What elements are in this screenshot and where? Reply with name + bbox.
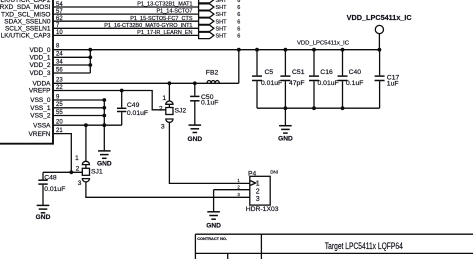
svg-text:SHT: SHT [216,0,228,4]
svg-text:1: 1 [256,181,260,188]
pin VSS_1 25 [30,102,104,112]
wire SJ1 pin3 to P4 pin3 [86,182,250,197]
svg-text:CONTRACT NO.: CONTRACT NO. [197,236,227,241]
capacitor C48 0.01uF [38,172,65,205]
pin SCLK/UTICK_CAP3 10 / net P1_17-IR_LEARN_EN [1,30,199,40]
wire SJ2 pin3 to P4 pin1 [169,122,249,183]
pin VREFP 22 / wire to SJ2 pin2 [29,85,166,110]
off-page flag SHT 6 (row 62) [199,18,241,25]
svg-text:0.01uF: 0.01uF [44,186,65,193]
svg-text:SHT: SHT [216,5,228,11]
svg-text:57: 57 [56,9,63,15]
svg-text:GND: GND [97,161,112,168]
wire C48/SJ1 pin2 [43,170,83,174]
svg-text:C16: C16 [320,69,333,76]
solder jumper SJ2 [159,81,187,130]
svg-text:FB2: FB2 [206,70,219,77]
wire VDD bus vertical [88,48,92,73]
ground (C50) [187,125,202,143]
svg-text:3: 3 [161,123,165,130]
svg-text:10: 10 [56,30,63,36]
svg-text:C40: C40 [349,69,362,76]
svg-text:0.1uF: 0.1uF [346,80,363,87]
pin VDD_1 24 [30,52,91,62]
svg-text:0.1uF: 0.1uF [201,99,218,106]
svg-text:GND: GND [278,135,293,142]
pin VREFN 21 / wire to SJ1 pin2 [28,128,71,172]
pin VDDA 23 / wire VDDA rail [32,78,238,88]
svg-text:DNI: DNI [270,170,278,175]
svg-text:54: 54 [56,2,63,8]
svg-text:3: 3 [78,180,82,187]
svg-text:VSS_1: VSS_1 [30,105,51,112]
off-page flag SHT 6 (row 54) [199,4,241,11]
svg-text:C5: C5 [265,69,274,76]
capacitor C5 0.01uF [252,48,282,108]
svg-text:2: 2 [159,105,163,112]
pin TXD_SCL_MISO 57 / net P1_14-SCTO7 [1,9,199,19]
svg-text:SJ1: SJ1 [91,168,103,175]
svg-text:2: 2 [76,166,80,173]
svg-text:6: 6 [237,5,240,11]
solder jumper SJ1 [75,125,103,187]
svg-text:22: 22 [56,85,63,91]
ferrite bead FB2 [206,70,220,84]
capacitor C17 1uF [375,50,400,108]
svg-text:6: 6 [237,26,240,32]
svg-text:HDR-1X03: HDR-1X03 [246,206,279,213]
svg-text:SDAX_SSELN0: SDAX_SSELN0 [4,18,51,25]
svg-text:24: 24 [56,52,63,58]
svg-text:GND: GND [206,223,221,230]
ground (P4 pin2) [206,212,221,230]
svg-text:SHT: SHT [216,12,228,18]
svg-text:25: 25 [56,102,63,108]
svg-text:VDDA: VDDA [32,81,51,88]
ground (VSS bus) [97,151,112,168]
svg-text:GND: GND [36,214,51,221]
pin VDD_2 34 [30,59,91,69]
pin VSS_0 9 [30,94,104,104]
svg-text:P1_14-SCTO7: P1_14-SCTO7 [157,9,193,15]
svg-text:1: 1 [162,95,166,102]
wire caps bottom rail [257,106,380,110]
off-page flag SHT 6 (row 7) [199,25,241,32]
svg-text:21: 21 [56,128,63,134]
ground (C48) [36,205,51,220]
connector P4 HDR-1X03 [237,170,278,213]
svg-text:P1_15-SCTO5-FC7_CTS: P1_15-SCTO5-FC7_CTS [130,16,193,22]
svg-text:1: 1 [75,155,79,162]
svg-text:6: 6 [237,34,240,40]
svg-text:VREFN: VREFN [28,131,50,138]
svg-text:VDD_LPC5411x_IC: VDD_LPC5411x_IC [297,40,350,46]
wire FB2 riser to VDD rail [237,48,241,84]
power symbol VDD_LPC5411x_IC [347,15,412,52]
off-page flag SHT 6 (row 10) [199,32,241,39]
svg-text:VSS_0: VSS_0 [30,97,51,104]
off-page flag (clipped, top) [199,0,241,4]
svg-text:0.01uF: 0.01uF [318,80,339,87]
svg-text:TXD_SCL_MISO: TXD_SCL_MISO [1,11,51,18]
svg-text:0.01uF: 0.01uF [127,110,148,117]
svg-text:56: 56 [56,67,63,73]
svg-text:RXD_SDA_MOSI: RXD_SDA_MOSI [0,4,51,11]
svg-text:SJ2: SJ2 [175,107,187,114]
pin VDD_3 56 [30,67,91,77]
capacitor C16 0.01uF [309,48,339,108]
svg-text:VSSA: VSSA [33,122,51,129]
svg-text:VDD_2: VDD_2 [30,62,51,69]
svg-text:6: 6 [237,19,240,25]
svg-text:2: 2 [256,188,260,195]
svg-text:6: 6 [237,0,240,4]
wire P4 pin2 to ground [214,190,250,212]
svg-text:SHT: SHT [216,26,228,32]
svg-text:SHT: SHT [216,34,228,40]
svg-text:C51: C51 [292,69,305,76]
svg-text:Target LPC5411x LQFP64: Target LPC5411x LQFP64 [325,241,403,251]
svg-text:55: 55 [56,110,63,116]
svg-text:GND: GND [187,136,202,143]
svg-text:C48: C48 [44,174,57,181]
svg-text:0.01uF: 0.01uF [261,80,282,87]
pin VSSA 20 / wire to C49 bottom [33,120,122,130]
pin VDD_0 8 / wire main VDD rail [30,43,380,54]
pin SCLX_SSELN1 7 / net P1_16-CT32B0_MAT0-GYRO_INT1 [5,23,199,33]
pin RXD_SDA_MOSI 54 / net P1_13-CT32B1_MAT1 [0,2,199,12]
svg-text:20: 20 [56,120,63,126]
svg-text:6: 6 [237,12,240,18]
pin SCLK/UTICK_CAP2 (row clipped at top) [0,0,51,4]
svg-text:62: 62 [56,16,63,22]
pin SDAX_SSELN0 62 / net P1_15-SCTO5-FC7_CTS [4,16,198,26]
svg-text:47pF: 47pF [289,80,305,87]
svg-text:34: 34 [56,59,63,65]
capacitor C49 0.01uF [117,91,148,126]
title block [195,234,473,259]
svg-text:P1_16-CT32B0_MAT0-GYRO_INT1: P1_16-CT32B0_MAT0-GYRO_INT1 [104,23,192,29]
svg-text:VDD_0: VDD_0 [30,47,51,54]
svg-text:P1_17-IR_LEARN_EN: P1_17-IR_LEARN_EN [137,30,192,36]
svg-text:VDD_3: VDD_3 [30,70,51,77]
pin VSS_2 55 [30,110,104,120]
svg-text:VDD_LPC5411x_IC: VDD_LPC5411x_IC [347,15,412,22]
svg-text:1uF: 1uF [387,80,399,87]
off-page flag SHT 6 (row 57) [199,11,241,18]
capacitor C40 0.1uF [338,48,364,108]
svg-text:23: 23 [56,78,63,84]
svg-text:SCLX_SSELN1: SCLX_SSELN1 [5,26,51,33]
svg-text:VREFP: VREFP [29,88,51,95]
ground (caps row) [278,126,293,143]
svg-text:3: 3 [256,196,260,203]
svg-text:VDD_1: VDD_1 [30,55,51,62]
capacitor C51 47pF [280,48,304,108]
wire VSS ground bus [102,98,106,150]
svg-text:SHT: SHT [216,19,228,25]
wire bottom rail to ground [284,108,286,125]
svg-text:VSS_2: VSS_2 [30,113,51,120]
svg-text:P1_13-CT32B1_MAT1: P1_13-CT32B1_MAT1 [137,2,192,8]
IC U1 body (left, partially off-sheet) [0,0,53,144]
svg-text:LK/UTICK_CAP3: LK/UTICK_CAP3 [1,33,51,40]
svg-text:C49: C49 [127,102,140,109]
capacitor C50 0.1uF [190,81,218,124]
